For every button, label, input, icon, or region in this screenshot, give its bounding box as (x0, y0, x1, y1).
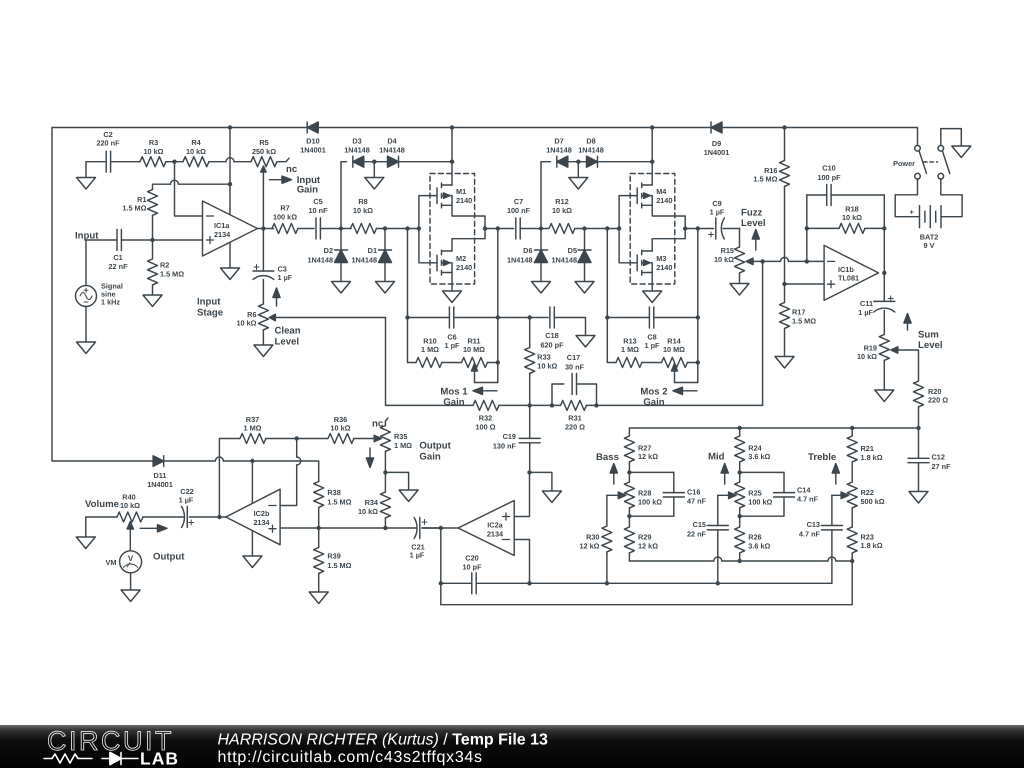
ground right of C19 node (542, 491, 561, 503)
wire: IC2a + input to C19 node (514, 472, 529, 516)
node R38-R39 on +line (317, 526, 321, 530)
wire: IC2b output to C22 (190, 516, 226, 518)
wire: output node down to line3 (440, 528, 442, 605)
svg-text:LAB: LAB (140, 749, 179, 768)
wire: M4 source to M3 drain with output stub (652, 205, 685, 251)
svg-text:4.7 nF: 4.7 nF (797, 495, 819, 504)
wire: rail drop to R1 node and IC1a V+ (229, 128, 231, 215)
svg-text:+: + (910, 208, 914, 217)
capacitor C8 1pF (607, 307, 698, 350)
node D7-D8 ground (576, 160, 580, 164)
svg-text:C17: C17 (567, 353, 580, 362)
diode D7 1N4148 (546, 137, 578, 168)
node mos2 network top-left (605, 315, 609, 319)
node IC1a output (261, 226, 265, 230)
resistor R4 10k (183, 138, 251, 167)
diode D3 1N4148 (344, 137, 374, 168)
node mos2 network top-right (696, 315, 700, 319)
node D3-D4 ground (372, 160, 376, 164)
svg-text:10 kΩ: 10 kΩ (857, 352, 877, 361)
svg-text:R29: R29 (638, 533, 651, 542)
svg-text:C3: C3 (278, 264, 287, 273)
svg-text:22 nF: 22 nF (108, 262, 128, 271)
svg-text:1N4148: 1N4148 (307, 255, 333, 264)
svg-text:D8: D8 (586, 137, 595, 146)
resistor R8 10k (351, 197, 419, 234)
svg-text:nc: nc (372, 419, 384, 430)
node rail-M1 drain (450, 125, 454, 129)
annotation: Clean Level arrow (273, 288, 301, 348)
node mid upper (738, 470, 742, 474)
svg-text:D6: D6 (523, 246, 532, 255)
svg-text:R28: R28 (638, 489, 651, 498)
wire: rail to M4 drain (651, 128, 653, 186)
wire: IC2a - input to line2 (514, 540, 529, 584)
svg-text:C11: C11 (860, 299, 873, 308)
svg-text:1.8 kΩ: 1.8 kΩ (861, 541, 883, 550)
diode D1 1N4148 (351, 229, 391, 282)
node R15 wiper to summing (760, 259, 764, 263)
annotation: Output Gain arrow (366, 441, 451, 468)
svg-text:1.5 MΩ: 1.5 MΩ (792, 317, 816, 326)
potentiometer R11 10M (462, 336, 498, 382)
svg-text:4.7 nF: 4.7 nF (799, 529, 821, 538)
svg-text:R32: R32 (479, 414, 492, 423)
annotation: Mos 1 Gain arrow (440, 386, 497, 408)
svg-text:10 kΩ: 10 kΩ (537, 362, 557, 371)
svg-text:R12: R12 (555, 197, 568, 206)
svg-text:27 nF: 27 nF (932, 462, 952, 471)
annotation: Mid arrow (708, 451, 728, 484)
svg-text:IC2a: IC2a (487, 521, 503, 530)
svg-text:R24: R24 (748, 443, 762, 452)
svg-text:1 pF: 1 pF (645, 341, 661, 350)
svg-text:D9: D9 (712, 139, 721, 148)
svg-text:1 pF: 1 pF (445, 341, 461, 350)
op-amp IC2b 2134 (226, 489, 280, 545)
potentiometer R25 100k (Mid) (718, 482, 773, 527)
svg-text:22 nF: 22 nF (687, 529, 707, 538)
wire: switch pole2 to ground (941, 129, 962, 146)
op-amp IC1a 2134 (203, 201, 258, 256)
wire: mos1 output to C7 (485, 228, 514, 230)
node R35 bottom (383, 470, 387, 474)
wire: D3 branch from C5 node (341, 162, 347, 229)
svg-text:1 MΩ: 1 MΩ (394, 441, 412, 450)
ground under R6 (254, 345, 273, 357)
svg-text:2140: 2140 (656, 196, 672, 205)
wire: D7 branch from C7 node (541, 162, 551, 229)
wire: M2 source to ground (451, 273, 453, 292)
svg-text:1N4148: 1N4148 (379, 145, 405, 154)
svg-text:1N4148: 1N4148 (546, 145, 572, 154)
capacitor C12 27nF (908, 428, 951, 492)
svg-text:C19: C19 (503, 432, 516, 441)
wire: rail to M1 drain (451, 128, 453, 186)
resistor R21 1.8k (Treble top) (847, 428, 883, 482)
wire: feedback left vertical (806, 195, 808, 261)
node mos2 network right-row (696, 360, 700, 364)
svg-text:2134: 2134 (214, 230, 231, 239)
annotation: Fuzz Level arrow (741, 207, 766, 250)
svg-text:M4: M4 (656, 187, 667, 196)
node C19 bottom (527, 470, 531, 474)
node mos2 right vertical joins row (696, 226, 700, 230)
svg-text:10 kΩ: 10 kΩ (143, 147, 163, 156)
node feedback left R18 (805, 226, 809, 230)
node R8-D1 (383, 226, 387, 230)
diode D6 1N4148 (507, 229, 548, 282)
ground under R19 (875, 390, 894, 402)
node rail-R16 (782, 125, 786, 129)
op-amp IC2a 2134 (458, 501, 514, 556)
svg-text:1 MΩ: 1 MΩ (243, 423, 261, 432)
resistor R26 3.6k (Mid bottom) (735, 527, 771, 561)
resistor R20 220R (914, 381, 949, 428)
potentiometer R40 10k (Volume) (86, 492, 143, 537)
svg-text:10 kΩ: 10 kΩ (552, 206, 572, 215)
svg-text:C20: C20 (465, 553, 478, 562)
capacitor C17 30nF parallel loop (552, 353, 597, 405)
svg-text:HARRISON RICHTER (Kurtus) / Te: HARRISON RICHTER (Kurtus) / Temp File 13 (218, 732, 549, 749)
svg-text:1 µF: 1 µF (858, 308, 873, 317)
svg-text:100 Ω: 100 Ω (475, 422, 495, 431)
mosfet pair box M1/M2 (430, 174, 475, 285)
svg-text:R30: R30 (586, 533, 599, 542)
wire+ground between D7/D8 (577, 162, 579, 178)
annotation: Treble arrow (808, 452, 839, 484)
node C5-R8-D2 (339, 226, 343, 230)
svg-text:C13: C13 (807, 520, 820, 529)
node R31 right (594, 403, 598, 407)
svg-text:C16: C16 (687, 488, 700, 497)
mosfet pair box M4/M3 (630, 174, 675, 285)
resistor R24 3.6k (Mid top) (735, 428, 771, 482)
svg-text:C10: C10 (822, 163, 835, 172)
node R16-R17 noninv (782, 282, 786, 286)
node R1-rail junction (228, 182, 232, 186)
svg-text:Clean: Clean (275, 326, 301, 337)
node IC1b output (882, 271, 886, 275)
signal source sine 1kHz (76, 240, 123, 342)
ground under D1 (376, 282, 395, 294)
node rail-M4 drain (650, 125, 654, 129)
wire: mos2 output to C9 (685, 228, 713, 230)
svg-text:Sum: Sum (918, 330, 939, 341)
svg-text:Bass: Bass (596, 452, 619, 463)
svg-text:R7: R7 (280, 204, 289, 213)
wire: IC2a output to C21 (422, 527, 458, 529)
svg-text:Gain: Gain (643, 397, 664, 408)
wire: M3 source to ground (651, 273, 653, 292)
ground right of R35 (399, 490, 418, 502)
wire: left border feed to D11 row (52, 128, 150, 462)
svg-text:220 Ω: 220 Ω (928, 396, 948, 405)
svg-text:R21: R21 (861, 444, 874, 453)
svg-text:IC1a: IC1a (214, 221, 230, 230)
svg-text:R2: R2 (160, 261, 169, 270)
node C7-R12-D6 (539, 226, 543, 230)
ground under D6 (532, 282, 551, 294)
wire: noninverting input IC1b (785, 283, 825, 285)
svg-text:10 kΩ: 10 kΩ (330, 423, 350, 432)
svg-text:C18: C18 (545, 331, 558, 340)
svg-text:Mos 2: Mos 2 (640, 386, 667, 397)
svg-text:C15: C15 (693, 520, 706, 529)
wire: R3/R4 node to IC1a inverting input (175, 162, 203, 216)
wire: gate bus M4/M3 (619, 196, 637, 263)
node mid lower (738, 514, 742, 518)
node line2 R30 (605, 581, 609, 585)
node R3-R4 junction (172, 160, 176, 164)
capacitor C11 1uF polarized (858, 296, 895, 335)
svg-text:R18: R18 (845, 204, 858, 213)
svg-text:1N4148: 1N4148 (351, 255, 377, 264)
svg-text:100 nF: 100 nF (507, 206, 531, 215)
svg-text:10 kΩ: 10 kΩ (353, 206, 373, 215)
svg-text:2140: 2140 (656, 263, 672, 272)
capacitor C15 22nF (mid wiper) (687, 495, 728, 583)
node R31 left / C17 (550, 403, 554, 407)
mosfet M4 2140 (637, 183, 672, 208)
wire: treble bottom to IC2a output line (441, 561, 852, 605)
node R12-D5 (582, 226, 586, 230)
wire: M1 source to M2 drain with output stub (452, 205, 485, 251)
ground under C2 (77, 178, 96, 190)
annotation: Mos 2 Gain arrow (640, 386, 697, 408)
label Input Stage (197, 297, 223, 319)
svg-text:Fuzz: Fuzz (741, 207, 763, 218)
wire: tone stack bottom row (R29/R26/R23) (629, 560, 852, 562)
potentiometer R28 100k (Bass) (607, 482, 662, 527)
resistor R31 220R (561, 400, 597, 431)
svg-text:R1: R1 (137, 195, 146, 204)
ground under IC1a (221, 268, 240, 280)
ground under IC2b (243, 556, 262, 568)
svg-text:R23: R23 (861, 532, 874, 541)
capacitor C7 100nF (507, 197, 548, 239)
wire: IC2b minus input up (hop over D11 line) (280, 439, 297, 506)
svg-text:9 V: 9 V (924, 241, 935, 250)
svg-text:47 nF: 47 nF (687, 497, 707, 506)
svg-text:10 kΩ: 10 kΩ (714, 255, 734, 264)
svg-text:10 kΩ: 10 kΩ (842, 213, 862, 222)
potentiometer R19 10k (Sum Level) (857, 335, 919, 391)
svg-text:1N4148: 1N4148 (344, 145, 370, 154)
svg-text:M3: M3 (656, 254, 666, 263)
svg-text:10 pF: 10 pF (462, 562, 482, 571)
svg-text:Mos 1: Mos 1 (440, 386, 468, 397)
wire: clean level to summing line (386, 318, 474, 406)
wire: mos1 B-node to C18 line (498, 317, 548, 319)
svg-text:D10: D10 (306, 137, 319, 146)
svg-text:1 µF: 1 µF (410, 551, 425, 560)
svg-text:R8: R8 (358, 197, 367, 206)
node tone bottom mid (738, 559, 742, 563)
svg-text:R25: R25 (748, 489, 761, 498)
voltmeter VM (106, 529, 142, 590)
wire: R1 top link (153, 184, 231, 189)
node line2 C15 (716, 581, 720, 585)
svg-text:D1: D1 (368, 246, 377, 255)
svg-text:http://circuitlab.com/c43s2tff: http://circuitlab.com/c43s2tffqx34s (218, 749, 483, 766)
svg-text:C1: C1 (113, 253, 122, 262)
capacitor C10 100pF (807, 163, 885, 205)
resistor R32 100R (473, 400, 530, 431)
resistor R29 12k (Bass bottom) (624, 527, 658, 561)
svg-text:R4: R4 (191, 138, 201, 147)
svg-text:1N4001: 1N4001 (300, 145, 326, 154)
node feedback right (882, 226, 886, 230)
svg-text:IC1b: IC1b (838, 265, 854, 274)
svg-text:1.5 MΩ: 1.5 MΩ (327, 497, 351, 506)
switch poles (Power) (893, 146, 950, 180)
ground under C12 (909, 492, 928, 504)
svg-text:250 kΩ: 250 kΩ (252, 147, 276, 156)
svg-text:1.5 MΩ: 1.5 MΩ (753, 175, 777, 184)
wire+ground between D3/D4 (373, 162, 375, 178)
capacitor C16 47nF parallel loop (629, 472, 706, 516)
svg-text:C14: C14 (797, 486, 811, 495)
op-amp IC1b TL081 (824, 245, 878, 300)
node R20-C12-tonestack (916, 426, 920, 430)
svg-text:1 µF: 1 µF (278, 273, 293, 282)
svg-text:1.5 MΩ: 1.5 MΩ (122, 204, 146, 213)
svg-text:10 kΩ: 10 kΩ (120, 501, 140, 510)
svg-text:1 MΩ: 1 MΩ (621, 345, 639, 354)
wire: tone stack top line (629, 428, 918, 436)
wire: C19 node ground branch (530, 472, 552, 491)
annotation: Bass arrow (596, 452, 619, 484)
diode D10 1N4001 (300, 122, 326, 154)
svg-text:1.5 MΩ: 1.5 MΩ (160, 269, 184, 278)
ground under R17 (775, 357, 794, 369)
svg-text:1N4148: 1N4148 (551, 255, 577, 264)
capacitor C9 1uF polarized (709, 199, 740, 239)
resistor R2 1.5M (148, 240, 185, 295)
wire: switch to battery left (895, 179, 919, 217)
capacitor C2 220nF (86, 130, 140, 178)
svg-text:Input: Input (197, 297, 221, 308)
svg-text:R6: R6 (247, 310, 256, 319)
resistor R34 10k (358, 472, 390, 528)
resistor R18 10k (807, 204, 885, 233)
potentiometer R5 250k (251, 138, 298, 229)
svg-text:M1: M1 (456, 187, 466, 196)
svg-text:R13: R13 (623, 336, 636, 345)
svg-text:C2: C2 (103, 130, 112, 139)
svg-text:R34: R34 (365, 498, 379, 507)
CircuitLab logo glyph resistor-diode (44, 753, 138, 765)
svg-text:500 kΩ: 500 kΩ (861, 497, 885, 506)
battery BAT2 9V (910, 206, 942, 250)
node MOS1 output (483, 226, 487, 230)
ground under R39 (309, 592, 328, 604)
svg-text:R38: R38 (327, 488, 340, 497)
node mos1 network top-left (405, 315, 409, 319)
svg-text:10 nF: 10 nF (308, 206, 328, 215)
wire: mos2 right network vertical (697, 229, 699, 383)
svg-text:12 kΩ: 12 kΩ (638, 541, 658, 550)
resistor R10 1M (416, 336, 462, 367)
node bass lower (627, 514, 631, 518)
svg-text:R14: R14 (667, 336, 681, 345)
svg-text:C5: C5 (313, 197, 322, 206)
resistor R23 1.8k (Treble bottom) (847, 527, 883, 561)
diode D4 1N4148 (374, 137, 452, 168)
potentiometer R15 10k (Fuzz Level) (714, 229, 807, 284)
svg-text:1N4001: 1N4001 (147, 480, 173, 489)
node MOS2 output (683, 226, 687, 230)
svg-text:220 nF: 220 nF (96, 139, 120, 148)
wire: battery right to switch pole2 (941, 179, 962, 217)
svg-text:Mid: Mid (708, 451, 725, 462)
svg-text:10 kΩ: 10 kΩ (186, 147, 206, 156)
ground under D2 (332, 282, 351, 294)
resistor R16 1.5M (753, 128, 789, 285)
svg-text:R27: R27 (638, 443, 651, 452)
node mos1 right vertical joins row (496, 226, 500, 230)
wire: summing node to R31 (530, 404, 561, 406)
svg-text:1 µF: 1 µF (710, 208, 725, 217)
node tone treble top (850, 426, 854, 430)
wire: +line IC2b to C21 (280, 527, 385, 529)
svg-text:C8: C8 (647, 332, 656, 341)
svg-text:12 kΩ: 12 kΩ (579, 541, 599, 550)
svg-text:1 kHz: 1 kHz (101, 298, 120, 307)
svg-text:Treble: Treble (808, 452, 836, 463)
wire: input line to IC1a + (153, 239, 203, 241)
wire: IC1a output node (258, 228, 274, 230)
ground left of R40 (76, 537, 95, 549)
svg-text:D11: D11 (154, 471, 167, 480)
svg-text:100 pF: 100 pF (817, 173, 841, 182)
svg-text:BAT2: BAT2 (920, 232, 939, 241)
wire: R35 node to ground (385, 472, 408, 490)
node R34 bottom on +line (383, 526, 387, 530)
resistor R30 12k (bass wiper) (579, 495, 611, 583)
svg-text:1N4148: 1N4148 (507, 255, 533, 264)
node mos2 left network (605, 226, 609, 230)
resistor R39 1.5M (314, 528, 352, 592)
node mos1 network right-row (496, 360, 500, 364)
svg-text:30 nF: 30 nF (565, 362, 585, 371)
annotation: Volume arrow (140, 525, 167, 532)
resistor R38 1.5M (314, 482, 352, 529)
potentiometer R22 500k (Treble) (832, 482, 885, 527)
resistor R7 100k (272, 204, 314, 234)
svg-text:TL081: TL081 (838, 274, 859, 283)
svg-text:VM: VM (106, 558, 117, 567)
svg-text:2134: 2134 (253, 518, 270, 527)
node D8-M4 drain (650, 160, 654, 164)
wire: minus feedback line (line2) (530, 582, 832, 584)
ground under signal source (77, 342, 96, 354)
wire: IC1a V- to ground (229, 242, 231, 268)
node input-R1-R2 (150, 238, 154, 242)
wire: mos2 left network vertical (607, 229, 616, 363)
node rail-IC1a supply (228, 125, 232, 129)
node gate bus on main row (417, 226, 421, 230)
svg-text:10 MΩ: 10 MΩ (663, 345, 685, 354)
node mos1 left network (405, 226, 409, 230)
node summing R32/R33/C19 (528, 403, 532, 407)
svg-text:D4: D4 (387, 137, 397, 146)
svg-text:R22: R22 (861, 488, 874, 497)
capacitor C1 22nF (86, 230, 153, 271)
wire: top supply rail (52, 128, 918, 146)
capacitor C19 130nF (493, 405, 540, 472)
